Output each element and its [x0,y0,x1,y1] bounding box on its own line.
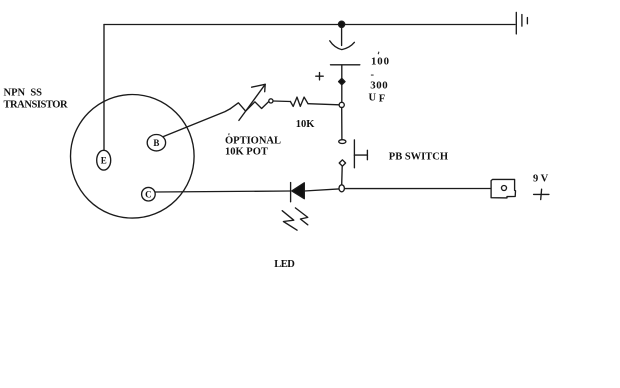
svg-text:OPTIONAL: OPTIONAL [225,136,281,147]
wire junction to capacitor curved plate [341,28,343,46]
wire top horizontal rail [104,24,515,26]
LED light ray bolt right [295,208,307,225]
wire capacitor plate down to resistor node [341,65,343,102]
wire pot to resistor [273,100,290,103]
svg-text:TRANSISTOR: TRANSISTOR [4,99,68,110]
switch S1 plunger cap [366,150,368,159]
node filled diamond below capacitor [339,78,345,84]
node junction dot on top rail [339,21,345,27]
label 100 - 300 U F [369,55,390,104]
ground [516,12,527,34]
svg-text:C: C [145,190,152,200]
switch S1 actuator bar [353,140,355,168]
battery BT1 terminal circle [502,186,507,191]
svg-text:NPN SS: NPN SS [4,88,43,99]
label OPTIONAL 10K POT [225,136,281,158]
switch S1 upper flattened contact [339,140,346,144]
wire LED to battery (bottom rail) [304,189,339,191]
wire collector C to LED [155,191,290,192]
transistor pin C circle [142,187,156,201]
tick mark above 100 [377,52,380,55]
svg-text:10K: 10K [296,119,316,130]
wire base B to potentiometer [164,109,231,137]
LED D1 triangle [292,183,305,199]
svg-text:E: E [101,156,107,166]
potentiometer wiper arrow [239,84,265,120]
svg-text:PB SWITCH: PB SWITCH [389,152,448,163]
capacitor C1 curved plate [330,41,355,50]
potentiometer RV1 zigzag [231,102,269,112]
wire bottom junction up to switch [341,166,344,185]
label NPN SS TRANSISTOR [4,88,68,111]
svg-text:B: B [153,138,159,148]
svg-text:LED: LED [274,259,295,270]
switch S1 lower diamond contact [339,160,345,166]
svg-text:100: 100 [371,55,390,67]
wire resistor node down to switch [341,108,343,140]
capacitor C1 straight plate [331,64,360,66]
capacitor polarity + sign [316,73,323,80]
transistor pin B circle [147,135,165,151]
battery BT1 9V snap body [491,179,515,198]
svg-text:10K POT: 10K POT [225,147,268,158]
battery polarity + sign [534,189,549,199]
svg-text:U F: U F [369,92,386,104]
svg-text:300: 300 [370,80,388,92]
transistor pin E circle [97,150,111,170]
LED D1 cathode bar [290,183,292,202]
node open circle at resistor/capacitor junction [339,102,344,107]
wire left vertical (E to top rail) [103,25,105,151]
transistor Q1 body circle [71,95,195,219]
node open circle bottom junction [339,185,344,192]
resistor R1 10K zigzag [290,97,308,106]
LED light ray bolt left [282,211,297,231]
tick mark above OPTIONAL [228,133,230,135]
potentiometer terminal circle [269,99,273,103]
wire resistor to junction [308,104,339,105]
switch S1 plunger tick [354,154,367,156]
svg-text:9 V: 9 V [533,174,549,185]
